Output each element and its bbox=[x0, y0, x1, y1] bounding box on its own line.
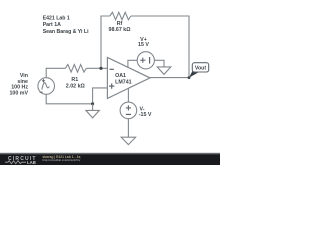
node junction at inverting input bbox=[99, 67, 102, 70]
wire V- to ground bbox=[127, 119, 129, 138]
ground symbol at V- bbox=[121, 137, 135, 144]
ground symbol at input bbox=[86, 110, 99, 118]
Vout flag tail bbox=[189, 71, 198, 78]
node junction ground node bbox=[91, 102, 94, 105]
svg-text:98.67 kΩ: 98.67 kΩ bbox=[109, 27, 132, 33]
V- source plus mark bbox=[126, 105, 131, 110]
wire R1 to inverting input bbox=[86, 67, 107, 69]
wire Vin bottom bbox=[46, 94, 92, 104]
node output corner bbox=[188, 76, 191, 79]
op-amp OA1 bbox=[107, 57, 150, 98]
watermark bar bbox=[0, 154, 220, 165]
ground symbol at V+ bbox=[157, 67, 171, 75]
svg-text:LAB: LAB bbox=[27, 160, 36, 165]
svg-text:R1: R1 bbox=[71, 77, 78, 83]
svg-text:100 mV: 100 mV bbox=[9, 90, 28, 96]
wire non-inverting input to ground node bbox=[93, 88, 108, 104]
svg-text:15 V: 15 V bbox=[138, 42, 149, 48]
svg-text:OA1: OA1 bbox=[115, 73, 126, 79]
wire feedback vertical and top corner bbox=[101, 16, 110, 68]
svg-text:http://circuitlab.com/c/mcbr5r: http://circuitlab.com/c/mcbr5rv bbox=[42, 158, 80, 162]
svg-text:Vout: Vout bbox=[195, 66, 206, 72]
svg-text:Part 1A: Part 1A bbox=[43, 22, 61, 28]
Vin plus mark bbox=[42, 79, 45, 82]
V+ source minus mark bbox=[149, 57, 151, 64]
svg-text:E421 Lab 1: E421 Lab 1 bbox=[43, 16, 70, 22]
Vin minus mark bbox=[40, 91, 43, 93]
wire op-amp V+ pin bbox=[128, 60, 137, 67]
wire stub to ground bbox=[92, 104, 94, 111]
wire op-amp V- pin bbox=[127, 88, 129, 102]
resistor R1 bbox=[65, 65, 86, 73]
node Vout flag bbox=[192, 63, 208, 72]
watermark logo zigzag bbox=[5, 161, 26, 164]
svg-text:-15 V: -15 V bbox=[139, 112, 152, 118]
V- source minus mark bbox=[126, 113, 131, 115]
svg-text:Sean Barag & Yi Li: Sean Barag & Yi Li bbox=[43, 29, 89, 35]
V+ source plus mark bbox=[140, 58, 145, 63]
voltage source V+ supply bbox=[137, 52, 154, 69]
label Vin bbox=[9, 73, 28, 96]
wire V+ to ground bbox=[154, 60, 164, 67]
svg-text:2.02 kΩ: 2.02 kΩ bbox=[66, 83, 86, 89]
wire Rf to output node bbox=[131, 16, 189, 78]
voltage source V- supply bbox=[120, 102, 137, 119]
voltage source Vin bbox=[38, 78, 55, 95]
op-amp minus input mark bbox=[110, 68, 114, 70]
svg-text:LM741: LM741 bbox=[115, 80, 132, 86]
title text block bbox=[43, 16, 89, 36]
op-amp plus input mark bbox=[109, 83, 114, 88]
wire op-amp output bbox=[150, 77, 189, 79]
wire Vin top to R1 bbox=[46, 68, 65, 78]
resistor Rf bbox=[110, 12, 131, 20]
